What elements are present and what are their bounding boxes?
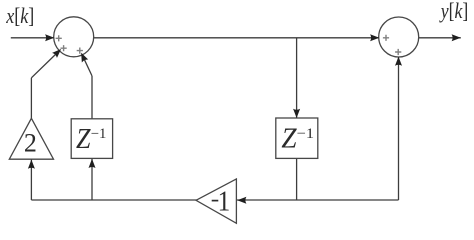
svg-text:Z: Z [281,124,297,155]
svg-text:−1: −1 [91,126,107,142]
svg-text:−1: −1 [297,126,314,142]
svg-text:Z: Z [76,124,92,155]
svg-text:1: 1 [218,187,231,218]
svg-text:2: 2 [24,129,37,158]
svg-text:x[k]: x[k] [5,3,34,28]
svg-text:y[k]: y[k] [439,0,468,23]
